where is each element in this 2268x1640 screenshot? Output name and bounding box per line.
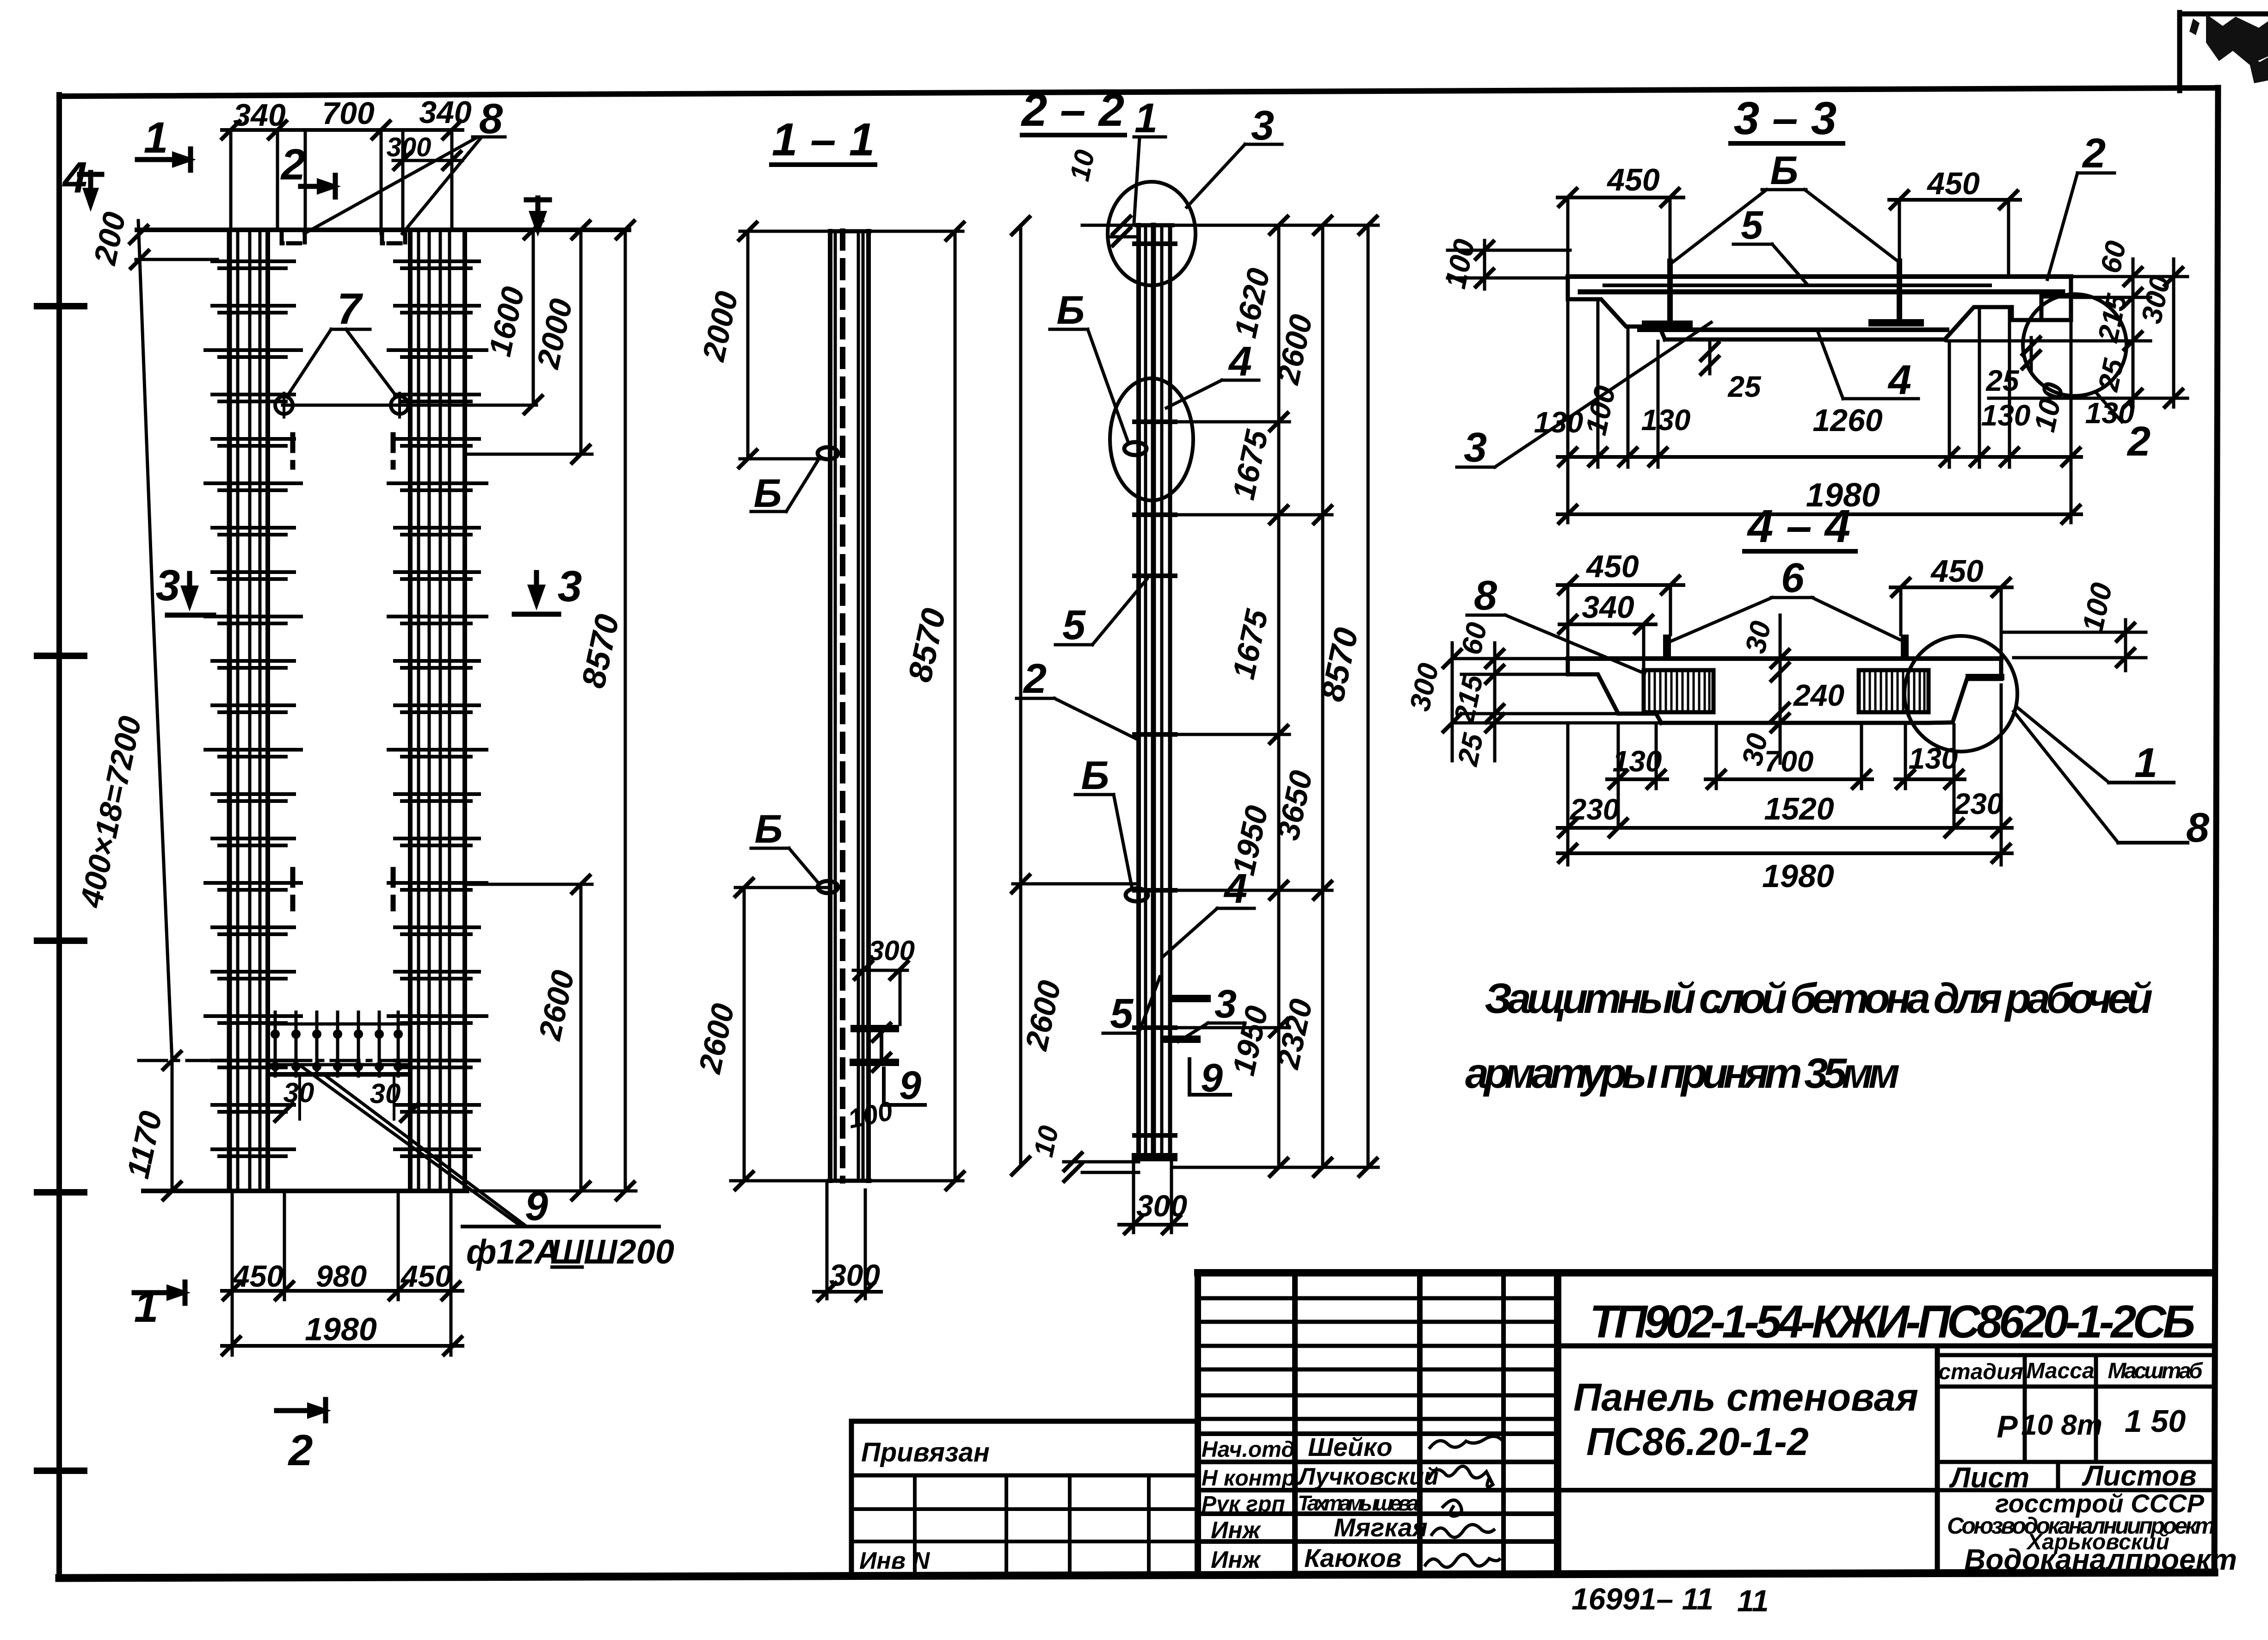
svg-text:700: 700 bbox=[322, 96, 375, 131]
panel top edge bbox=[1568, 656, 2001, 661]
keyway insert left (hatched) bbox=[1644, 670, 1713, 712]
lifting fixture notch left (item 8) bbox=[282, 232, 305, 243]
svg-text:3: 3 bbox=[1464, 425, 1487, 471]
right dim 1600 bbox=[532, 230, 535, 405]
svg-text:25: 25 bbox=[1985, 364, 2020, 397]
column top edge bbox=[1137, 223, 1172, 228]
detail circle right end bbox=[2023, 294, 2126, 396]
svg-text:3: 3 bbox=[1214, 982, 1237, 1026]
svg-text:Масштаб: Масштаб bbox=[2108, 1359, 2203, 1383]
flag Б lower bbox=[818, 881, 838, 893]
dim row B 230/1520/230 bbox=[1558, 826, 2012, 830]
svg-text:450: 450 bbox=[232, 1259, 283, 1293]
svg-text:2: 2 bbox=[2082, 130, 2106, 177]
dim row A 130/700/130 bbox=[1607, 777, 1667, 781]
svg-text:Мягкая: Мягкая bbox=[1334, 1513, 1428, 1542]
svg-text:450: 450 bbox=[1926, 166, 1980, 201]
dim 200/7200 vertical bbox=[138, 221, 172, 1191]
label 30 above 4-4 top edge bbox=[0, 0, 0, 0]
svg-text:арматуры принят 35мм: арматуры принят 35мм bbox=[1465, 1050, 1900, 1097]
keyway insert right (hatched) bbox=[1859, 670, 1929, 712]
svg-text:Водоканалпроект: Водоканалпроект bbox=[1964, 1543, 2237, 1576]
bottom dim row2 1980 bbox=[1558, 512, 2081, 516]
svg-text:Б: Б bbox=[754, 471, 782, 516]
detail circle right end bbox=[1904, 636, 2017, 752]
svg-text:300: 300 bbox=[387, 132, 431, 162]
hidden dashed centerlines bbox=[290, 435, 296, 467]
fold tick y1418 bbox=[37, 653, 84, 659]
svg-text:Б: Б bbox=[755, 807, 783, 851]
svg-text:1 – 1: 1 – 1 bbox=[772, 114, 875, 166]
svg-text:60: 60 bbox=[1455, 620, 1493, 658]
detail circle middle bbox=[1110, 378, 1193, 500]
panel top edge bbox=[1568, 274, 2071, 279]
label 1 leader bbox=[2016, 707, 2109, 783]
lifting loop bar right bbox=[1901, 635, 1909, 659]
section mark 4 top-right arrow bbox=[536, 198, 541, 227]
bottom bar item 4 bbox=[1639, 327, 1947, 332]
svg-text:Панель стеновая: Панель стеновая bbox=[1573, 1375, 1918, 1419]
svg-text:130: 130 bbox=[1534, 406, 1584, 439]
svg-text:4 – 4: 4 – 4 bbox=[1747, 500, 1850, 552]
section mark 2 bottom bbox=[277, 1408, 324, 1413]
svg-text:1260: 1260 bbox=[1812, 403, 1882, 438]
svg-text:1 50: 1 50 bbox=[2125, 1404, 2186, 1439]
stamp outer frame bbox=[1198, 1269, 2214, 1276]
stage/mass/scale header bbox=[1937, 1353, 2214, 1357]
hook bar left (Б) bbox=[1667, 261, 1673, 322]
column bottom thick edge bbox=[1136, 1153, 1173, 1161]
bottom extension verticals bbox=[1566, 299, 1570, 523]
dim 8570 right bbox=[954, 231, 957, 1181]
right dims 60/215/25/300 bbox=[2071, 275, 2188, 278]
bottom dim 450/980/450 bbox=[222, 1289, 462, 1293]
svg-text:Рук грп: Рук грп bbox=[1202, 1492, 1285, 1517]
sub-table verticals bbox=[1292, 1273, 1298, 1573]
svg-text:10: 10 bbox=[1064, 147, 1100, 184]
panel top outline bbox=[137, 228, 629, 232]
right dim 8570 bbox=[624, 230, 627, 1191]
cell line under name bbox=[1558, 1488, 1937, 1492]
signatures bbox=[1430, 1436, 1502, 1448]
mesh dots bbox=[271, 1030, 403, 1071]
bottom extension verticals bbox=[1566, 723, 1570, 865]
dim 200 left extensions bbox=[136, 258, 217, 261]
anchor loops row (item 7) bbox=[283, 404, 536, 407]
left dims 60/215/25/300 bbox=[1452, 657, 1568, 660]
top mesh bar B bbox=[1580, 290, 2063, 295]
svg-text:130: 130 bbox=[1909, 742, 1958, 775]
svg-text:1: 1 bbox=[134, 1282, 159, 1332]
svg-text:стадия: стадия bbox=[1938, 1360, 2023, 1384]
column body bbox=[828, 231, 832, 1181]
dim 300 line bbox=[393, 159, 462, 162]
svg-text:4: 4 bbox=[1887, 357, 1911, 403]
connectors bbox=[1172, 224, 1378, 227]
column body bbox=[1136, 225, 1141, 1159]
leader 8 to right notch bbox=[402, 138, 481, 234]
svg-text:2: 2 bbox=[1023, 656, 1047, 702]
hook bar right (Б) bbox=[1897, 261, 1902, 321]
svg-text:230: 230 bbox=[1570, 793, 1620, 826]
svg-text:Защитный слой бетона для р: Защитный слой бетона для рабочей bbox=[1485, 975, 2153, 1022]
svg-text:9: 9 bbox=[899, 1063, 921, 1108]
panel bottom outline bbox=[143, 1189, 467, 1193]
svg-text:3: 3 bbox=[156, 561, 180, 610]
dim 2600 left bbox=[743, 888, 746, 1181]
svg-text:30: 30 bbox=[1739, 618, 1777, 656]
svg-text:ПС86.20-1-2: ПС86.20-1-2 bbox=[1586, 1420, 1809, 1463]
svg-text:10 8т: 10 8т bbox=[2021, 1409, 2102, 1441]
top mesh bar A bbox=[1604, 284, 1990, 287]
main divider bbox=[1554, 1273, 1561, 1573]
svg-text:130: 130 bbox=[1641, 403, 1691, 437]
rabbet notch right bbox=[2041, 296, 2071, 320]
privyazan box bbox=[851, 1419, 1198, 1424]
svg-text:Нач.отд: Нач.отд bbox=[1202, 1437, 1295, 1462]
svg-text:450: 450 bbox=[400, 1259, 452, 1293]
svg-text:1: 1 bbox=[1134, 95, 1158, 142]
svg-text:Шейко: Шейко bbox=[1308, 1432, 1393, 1461]
column bottom edge bbox=[829, 1179, 870, 1183]
svg-text:450: 450 bbox=[1606, 162, 1660, 197]
svg-text:5: 5 bbox=[1110, 991, 1134, 1037]
border bottom bbox=[59, 1572, 2214, 1578]
svg-text:Инж: Инж bbox=[1211, 1517, 1262, 1544]
lifting loop bar left bbox=[1663, 635, 1671, 659]
svg-text:450: 450 bbox=[1930, 554, 1984, 589]
svg-text:700: 700 bbox=[1764, 745, 1814, 778]
right reinforcement column verticals bbox=[410, 230, 465, 1189]
panel right end profile bbox=[1945, 277, 2071, 339]
svg-text:6: 6 bbox=[1781, 555, 1805, 601]
svg-text:Ш: Ш bbox=[550, 1233, 585, 1271]
svg-text:3 – 3: 3 – 3 bbox=[1734, 92, 1837, 144]
svg-text:Масса: Масса bbox=[2026, 1359, 2094, 1383]
svg-text:Каюков: Каюков bbox=[1304, 1543, 1401, 1572]
fold tick y660 bbox=[37, 303, 84, 309]
svg-text:Лучковский: Лучковский bbox=[1297, 1463, 1439, 1490]
svg-text:Б: Б bbox=[1081, 753, 1109, 798]
left reinforcement column verticals bbox=[229, 230, 268, 1189]
svg-text:60: 60 bbox=[2095, 238, 2132, 276]
bottom dim 1980 bbox=[222, 1344, 462, 1348]
fold tick y3180 bbox=[37, 1467, 84, 1474]
mesh block bottom (item 9) bbox=[267, 1011, 410, 1078]
tie marks on column bbox=[1132, 244, 1177, 1135]
flag Б upper bbox=[818, 447, 838, 459]
bottom dim row1 bbox=[1558, 455, 2081, 459]
svg-text:Листов: Листов bbox=[2082, 1460, 2197, 1492]
svg-text:Инв N: Инв N bbox=[859, 1548, 931, 1574]
border top bbox=[59, 88, 2218, 96]
bottom connector bbox=[472, 1190, 636, 1193]
panel left end bbox=[1568, 659, 1661, 723]
weld plate bars bbox=[850, 1025, 899, 1032]
svg-text:340: 340 bbox=[1582, 590, 1634, 625]
ticks bbox=[1269, 215, 1289, 235]
svg-text:8: 8 bbox=[1474, 573, 1497, 619]
ladder rungs right column bbox=[387, 261, 488, 1156]
bar item 9 bbox=[1161, 1036, 1201, 1043]
top dim line 340/700/340 bbox=[222, 128, 462, 132]
svg-text:Тахтамышева: Тахтамышева bbox=[1298, 1491, 1419, 1515]
bottom dim 300 bbox=[826, 1181, 829, 1299]
svg-text:8: 8 bbox=[2186, 805, 2209, 851]
TP designation cell bottom bbox=[1558, 1344, 2214, 1349]
revision sub-table rows bbox=[1198, 1298, 1558, 1419]
svg-text:30: 30 bbox=[370, 1078, 401, 1109]
rabbet notch bar right bbox=[1969, 674, 2001, 680]
svg-text:16991– 11: 16991– 11 bbox=[1572, 1582, 1713, 1616]
svg-text:Привязан: Привязан bbox=[861, 1437, 990, 1467]
svg-text:ТП902-1-54-КЖИ-ПС8620-1-2СБ: ТП902-1-54-КЖИ-ПС8620-1-2СБ bbox=[1590, 1296, 2195, 1348]
right dim 2600 bbox=[579, 884, 583, 1191]
svg-text:2 – 2: 2 – 2 bbox=[1021, 84, 1124, 136]
leader 8 to left notch bbox=[304, 138, 476, 234]
leaders mesh to label 9 bbox=[302, 1067, 519, 1225]
svg-text:980: 980 bbox=[316, 1259, 367, 1293]
dim 2000 left bbox=[746, 231, 750, 459]
svg-text:25: 25 bbox=[1727, 370, 1762, 403]
svg-text:Н контр: Н контр bbox=[1202, 1466, 1295, 1491]
border right bbox=[2214, 88, 2218, 1573]
border left bbox=[56, 95, 62, 1576]
svg-text:340: 340 bbox=[419, 95, 472, 130]
bar item 3 bbox=[1168, 995, 1211, 1002]
svg-text:300: 300 bbox=[1136, 1189, 1187, 1223]
svg-text:240: 240 bbox=[1793, 678, 1844, 712]
panel left end bbox=[1568, 277, 1665, 339]
svg-text:2: 2 bbox=[280, 140, 306, 189]
svg-text:10: 10 bbox=[1028, 1123, 1064, 1159]
svg-text:450: 450 bbox=[1585, 549, 1639, 584]
svg-text:5: 5 bbox=[1062, 602, 1086, 648]
svg-text:7: 7 bbox=[337, 284, 364, 333]
panel right end profile bbox=[1928, 659, 2001, 723]
centreline dash-dot y2293 bbox=[139, 1059, 467, 1062]
fold tick y2034 bbox=[37, 937, 84, 944]
svg-text:4: 4 bbox=[1228, 339, 1252, 385]
ladder rungs left column bbox=[203, 261, 303, 1156]
svg-text:1520: 1520 bbox=[1764, 791, 1834, 826]
svg-text:3: 3 bbox=[1251, 103, 1274, 149]
svg-text:2: 2 bbox=[288, 1426, 313, 1475]
panel bottom edge bbox=[1661, 721, 1928, 725]
bottom-left cells bbox=[851, 1507, 1198, 1511]
section mark 1 bottom bbox=[134, 1290, 183, 1295]
svg-text:340: 340 bbox=[233, 98, 286, 133]
corner box top-right bbox=[2177, 12, 2182, 91]
panel bottom edge bbox=[1665, 338, 1945, 342]
dims 30/240/30 bbox=[1779, 615, 1782, 763]
svg-text:300: 300 bbox=[829, 1258, 880, 1292]
svg-text:11: 11 bbox=[1737, 1584, 1769, 1618]
lifting fixture notch right (item 8) bbox=[382, 232, 405, 243]
svg-text:130: 130 bbox=[2085, 396, 2135, 430]
detail circle top bbox=[1108, 182, 1196, 285]
svg-text:5: 5 bbox=[1741, 203, 1763, 247]
fold tick y2578 bbox=[37, 1189, 84, 1196]
bottom dim 300 bbox=[1132, 1162, 1135, 1233]
svg-text:Инж: Инж bbox=[1211, 1547, 1262, 1573]
svg-text:Б: Б bbox=[1057, 288, 1085, 333]
svg-text:3: 3 bbox=[558, 562, 582, 611]
dim row C 1980 bbox=[1558, 851, 2012, 855]
svg-text:Б: Б bbox=[1770, 148, 1799, 193]
svg-text:ф12А: ф12А bbox=[466, 1233, 559, 1271]
svg-text:1980: 1980 bbox=[305, 1311, 377, 1347]
left dim line 2600 bbox=[1019, 226, 1023, 1166]
svg-text:1980: 1980 bbox=[1762, 858, 1834, 894]
svg-text:130: 130 bbox=[1981, 399, 2031, 432]
svg-text:4: 4 bbox=[62, 153, 87, 202]
svg-text:1: 1 bbox=[144, 113, 168, 162]
name cell divider bbox=[1935, 1346, 1940, 1573]
right dim verticals bbox=[1277, 225, 1281, 1167]
svg-text:Р: Р bbox=[1997, 1409, 2018, 1444]
svg-text:1: 1 bbox=[2134, 740, 2157, 786]
svg-text:Ш200: Ш200 bbox=[584, 1233, 674, 1271]
name table rows bbox=[1198, 1434, 1558, 1541]
svg-text:230: 230 bbox=[1954, 787, 2003, 820]
label 8 leader bottom right bbox=[2014, 711, 2118, 843]
extension verticals top dims bbox=[229, 130, 233, 230]
right dim 2000 bbox=[579, 230, 583, 454]
column top edge bbox=[830, 229, 869, 234]
svg-text:130: 130 bbox=[1613, 745, 1662, 778]
